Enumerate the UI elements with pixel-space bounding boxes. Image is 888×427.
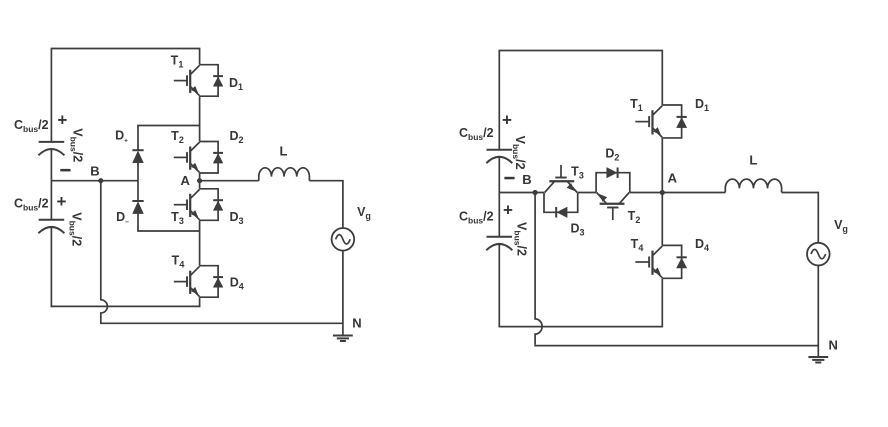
label T4 (right)	[631, 237, 644, 253]
node A (right)	[660, 190, 665, 195]
wire top DC rail (left circuit)	[51, 48, 199, 50]
wire phase A to inductor	[200, 180, 259, 182]
diode D2	[200, 142, 223, 174]
wire neutral return to N (left)	[100, 322, 343, 324]
wire negative rail (left circuit)	[51, 305, 201, 307]
value label V_bus/2 (lower, rotated)	[68, 212, 84, 246]
label T1	[171, 54, 184, 70]
label D3	[229, 210, 243, 226]
diode D4	[662, 245, 686, 278]
wire T3-T2 emitter link	[578, 192, 596, 194]
wire clamp top horizontal	[137, 125, 199, 127]
label D1	[229, 76, 243, 92]
transistor T1	[174, 65, 200, 95]
wire B branch down with crossover hop (right)	[535, 193, 542, 345]
wire left DC-link branch upper	[50, 48, 52, 142]
label + (lower right cap)	[503, 201, 513, 220]
label D3 (right)	[570, 221, 584, 237]
label + (upper right cap)	[502, 110, 512, 129]
label N (right)	[829, 338, 838, 353]
wire T2-T3 through node A	[199, 173, 201, 189]
diode D+ upper clamp	[132, 150, 143, 163]
node A (left)	[197, 178, 202, 183]
value label C_bus/2 (lower right)	[459, 210, 494, 226]
transistor T3	[545, 165, 578, 193]
value label C_bus/2	[14, 118, 49, 134]
transistor T2	[597, 193, 630, 221]
transistor T4	[174, 266, 200, 296]
wire neutral B line (right)	[499, 192, 544, 194]
label D1 (right)	[695, 97, 709, 113]
value label V_bus/2 (rotated)	[69, 128, 85, 162]
svg-text:L: L	[280, 144, 288, 159]
diode D1	[662, 105, 686, 138]
value label C_bus/2 (lower)	[14, 197, 49, 213]
label B (left)	[90, 164, 99, 179]
label N (left)	[352, 315, 361, 330]
wire inductor to source	[309, 180, 343, 182]
label T2 (right)	[628, 209, 641, 225]
label D4	[230, 275, 244, 291]
wire clamp leg bottom	[137, 214, 139, 231]
wire right DC-link branch upper	[498, 50, 500, 150]
svg-text:B: B	[522, 172, 531, 187]
AC source Vg (left)	[332, 228, 355, 251]
svg-text:+: +	[57, 192, 67, 211]
diode D4	[200, 266, 223, 298]
label A (right)	[668, 171, 678, 186]
label T1 (right)	[630, 97, 643, 113]
label D2	[229, 129, 243, 145]
inductor L (left)	[259, 168, 310, 181]
diode D2	[596, 167, 630, 192]
diode D3	[544, 193, 578, 218]
svg-text:+: +	[502, 110, 512, 129]
diode D- lower clamp	[132, 201, 143, 214]
label L (left)	[280, 144, 288, 159]
label - (upper right cap)	[504, 177, 514, 180]
capacitor C_bus/2 (lower left)	[38, 220, 64, 233]
wire T1-T2	[199, 96, 201, 141]
capacitor C_bus/2 (upper left)	[38, 142, 64, 155]
label T3 (right)	[571, 164, 584, 180]
AC source Vg (right)	[807, 243, 830, 266]
diode D3	[200, 189, 223, 221]
label L (right)	[749, 153, 757, 168]
wire source bottom to ground (right)	[817, 265, 819, 357]
diode D1	[200, 65, 223, 97]
value label V_bus/2 (upper right, rotated)	[511, 136, 527, 170]
svg-text:N: N	[829, 338, 838, 353]
wire collector T1	[199, 48, 201, 65]
svg-text:A: A	[668, 171, 678, 186]
wire inductor to source (right)	[782, 192, 819, 194]
wire source bottom to ground	[342, 251, 344, 336]
label - (upper cap)	[60, 169, 70, 172]
wire clamp mid upper	[137, 163, 139, 181]
svg-text:N: N	[352, 315, 361, 330]
value label V_bus/2 (lower right, rotated)	[512, 222, 528, 256]
label T4	[172, 254, 185, 270]
label T3	[171, 210, 184, 226]
capacitor C_bus/2 (upper right)	[486, 150, 512, 163]
label + (upper cap)	[57, 110, 67, 129]
svg-text:+: +	[57, 110, 67, 129]
ground N (right)	[808, 357, 828, 363]
svg-text:+: +	[503, 201, 513, 220]
wire left DC-link branch lower	[50, 227, 52, 307]
wire DC-link mid	[50, 149, 52, 220]
wire phase A to inductor (right)	[630, 192, 726, 194]
wire clamp leg top	[137, 126, 139, 151]
wire source top	[342, 180, 344, 228]
wire B branch down with crossover hop	[101, 181, 108, 323]
ground N (left)	[333, 336, 353, 342]
inductor L (right)	[725, 179, 781, 192]
wire clamp mid lower	[137, 181, 139, 202]
svg-text:B: B	[90, 164, 99, 179]
wire right DC-link mid	[498, 157, 500, 237]
label D2 (right)	[605, 147, 619, 163]
node B (right)	[533, 190, 538, 195]
wire source top (right)	[817, 192, 819, 243]
value label C_bus/2 (upper right)	[459, 126, 494, 142]
wire T3-T4	[199, 220, 201, 265]
svg-text:A: A	[181, 173, 191, 188]
transistor T2	[174, 142, 200, 172]
label T2	[171, 129, 184, 145]
label Vg (right)	[834, 218, 848, 234]
label A (left)	[181, 173, 191, 188]
transistor T4	[635, 246, 662, 278]
label D4 (right)	[695, 237, 709, 253]
wire negative rail (right circuit)	[499, 326, 663, 328]
wire neutral return to N (right)	[534, 345, 818, 347]
label D+	[115, 129, 128, 145]
transistor T1	[635, 106, 662, 138]
node B (left)	[98, 178, 103, 183]
label D-	[116, 210, 129, 226]
wire collector T1 (right)	[661, 50, 663, 105]
svg-text:L: L	[749, 153, 757, 168]
wire right DC-link branch lower	[498, 244, 500, 327]
transistor T3	[174, 189, 200, 219]
label B (right)	[522, 172, 531, 187]
capacitor C_bus/2 (lower right)	[486, 237, 512, 250]
wire neutral from caps to clamp leg	[51, 180, 138, 182]
wire T4 emitter to negative rail (right)	[661, 278, 663, 327]
wire clamp bottom horizontal	[137, 230, 199, 232]
wire T1 to T4 through node A	[661, 138, 663, 246]
wire top DC rail (right circuit)	[499, 50, 662, 52]
wire T4 emitter to negative rail	[199, 297, 201, 307]
label + (lower cap)	[57, 192, 67, 211]
label Vg (left)	[357, 205, 371, 221]
